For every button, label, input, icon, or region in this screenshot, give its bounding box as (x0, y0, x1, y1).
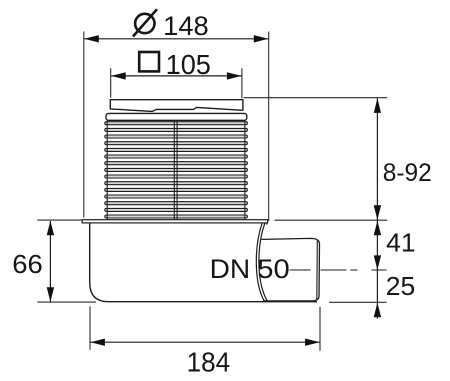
riser walls (106, 121, 108, 220)
riser ribs (corrugated height adjustment piece) (105, 122, 248, 218)
trap body outline (90, 223, 317, 302)
dimension □ 105 (111, 49, 242, 98)
right-hand dimension chain 8-92 / 41 / 25 (244, 98, 432, 319)
trap top flange (82, 220, 267, 223)
trap outlet S-curve wall (256, 223, 264, 302)
dimension 66 (left) (12, 220, 96, 302)
svg-text:41: 41 (386, 228, 416, 258)
svg-text:105: 105 (166, 49, 211, 80)
svg-text:DN: DN (210, 254, 251, 284)
svg-text:184: 184 (187, 346, 231, 377)
svg-text:8-92: 8-92 (383, 159, 432, 187)
svg-text:25: 25 (386, 271, 416, 301)
centerline (dashed) (290, 269, 387, 271)
dimension 184 (bottom) (90, 306, 320, 377)
grate frame bar (106, 113, 247, 120)
grate plate (top cover profile) (110, 100, 243, 112)
dimension Ø 148 (84, 9, 269, 221)
riser middle seam (173, 121, 175, 220)
svg-text:66: 66 (12, 249, 43, 279)
svg-text:148: 148 (163, 11, 209, 41)
svg-text:50: 50 (257, 254, 290, 284)
outlet pipe DN50 (262, 238, 320, 301)
